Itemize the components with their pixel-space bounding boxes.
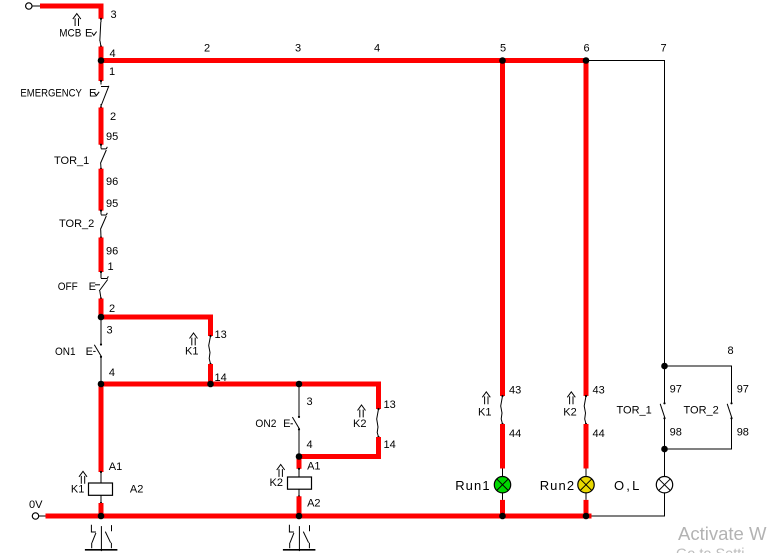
wire TOR_2 branch top	[665, 366, 732, 403]
svg-text:ON2: ON2	[255, 418, 276, 430]
svg-text:0V: 0V	[29, 499, 43, 511]
svg-text:MCB: MCB	[59, 27, 81, 39]
junction K1-14	[207, 381, 214, 388]
svg-text:2: 2	[204, 42, 210, 54]
svg-text:44: 44	[593, 428, 605, 440]
junction TOR bottom	[661, 446, 668, 453]
indicator lamp Run1 (green)	[494, 477, 510, 493]
svg-text:4: 4	[374, 42, 380, 54]
wire 96/1	[99, 238, 104, 273]
svg-text:TOR_1: TOR_1	[54, 155, 89, 167]
wire node 5	[500, 61, 505, 397]
svg-text:3: 3	[107, 325, 113, 337]
junction Run2 / 0V	[583, 513, 590, 520]
svg-text:A2: A2	[307, 497, 320, 509]
wire K2 44 to lamp	[584, 424, 589, 469]
linkage marker MCB	[73, 14, 81, 26]
wire lamp Run1 top lead	[502, 469, 504, 477]
wire Run2 to 0V	[584, 500, 589, 516]
svg-text:A1: A1	[307, 461, 320, 473]
emergency stop EMERGENCY (NC)	[20, 80, 109, 109]
overload contact TOR_2 (NC)	[59, 210, 107, 239]
indicator lamp Run2 (yellow)	[578, 477, 594, 493]
linkage marker K2 contact	[358, 405, 366, 417]
linkage marker K1 aux	[482, 392, 490, 404]
svg-text:A2: A2	[130, 484, 143, 496]
svg-text:Go to Setti: Go to Setti	[676, 547, 745, 553]
wire TOR to lamp O,L	[664, 449, 666, 477]
wire lamp Run1 bottom lead	[502, 493, 504, 500]
svg-text:2: 2	[109, 303, 115, 315]
contactor K1 linked-contacts glyph	[85, 525, 118, 551]
junction node 6	[583, 57, 590, 64]
wire node 4	[99, 47, 104, 82]
pushbutton ON2 (NO)	[255, 384, 300, 457]
svg-text:K2: K2	[353, 418, 366, 430]
svg-text:Activate W: Activate W	[678, 523, 767, 544]
wire lamp Run2 bottom lead	[585, 493, 587, 500]
wire K2 A2 to 0V	[297, 496, 302, 516]
svg-text:95: 95	[106, 198, 118, 210]
svg-text:E: E	[283, 418, 290, 430]
wire K2 coil feed	[297, 457, 302, 469]
svg-text:Run1: Run1	[455, 478, 490, 493]
linkage marker K1 coil	[79, 471, 87, 483]
linkage marker K2 coil	[277, 465, 285, 477]
svg-text:K1: K1	[478, 407, 491, 419]
svg-text:TOR_2: TOR_2	[59, 218, 94, 230]
svg-text:44: 44	[509, 428, 521, 440]
svg-text:K1: K1	[185, 346, 198, 358]
svg-text:95: 95	[106, 131, 118, 143]
junction node 5	[499, 57, 506, 64]
svg-text:13: 13	[215, 329, 227, 341]
svg-text:97: 97	[670, 384, 682, 396]
wire	[32, 5, 40, 7]
svg-text:98: 98	[737, 427, 749, 439]
svg-text:TOR_2: TOR_2	[684, 405, 719, 417]
wire K1 14	[208, 364, 213, 384]
svg-text:O,L: O,L	[614, 478, 642, 493]
breaker MCB	[59, 14, 102, 48]
wire K2 14 to ON2 bottom	[299, 437, 379, 457]
junction node 4	[98, 57, 105, 64]
svg-text:K2: K2	[563, 407, 576, 419]
indicator lamp O,L (white)	[656, 477, 672, 493]
svg-text:13: 13	[384, 399, 396, 411]
contact K2 43-44 (NO, closed)	[563, 392, 587, 425]
terminal 0V	[32, 513, 38, 519]
wire K1 44 to lamp	[500, 424, 505, 469]
svg-text:OFF: OFF	[58, 281, 78, 293]
wire K1 A2 to 0V	[99, 503, 104, 516]
svg-text:ON1: ON1	[55, 346, 76, 358]
wire lamp Run2 top lead	[585, 469, 587, 477]
junction Run1 / 0V	[499, 513, 506, 520]
junction TOR top	[661, 363, 668, 370]
contact K1 43-44 (NO, closed)	[478, 392, 504, 425]
svg-text:Run2: Run2	[540, 478, 575, 493]
svg-text:96: 96	[106, 246, 118, 258]
wire	[39, 515, 46, 517]
junction K1-A2 / 0V	[98, 513, 105, 520]
svg-text:43: 43	[509, 385, 521, 397]
svg-text:E: E	[89, 281, 96, 293]
svg-text:TOR_1: TOR_1	[617, 405, 652, 417]
terminal L1 (supply)	[26, 3, 32, 9]
wire ON1/K1 top branch	[101, 317, 211, 336]
svg-text:E: E	[85, 27, 92, 39]
junction ON1 top	[98, 314, 105, 321]
svg-text:E: E	[86, 346, 93, 358]
svg-text:96: 96	[106, 176, 118, 188]
overload contact TOR_1 (NC)	[54, 144, 107, 170]
pushbutton OFF (NC)	[58, 271, 109, 300]
wire 0V rail	[46, 514, 592, 519]
wire node 2/95	[99, 108, 104, 145]
svg-text:43: 43	[593, 385, 605, 397]
wire node 6	[584, 61, 589, 397]
wire Run1 to 0V	[500, 500, 505, 516]
svg-text:3: 3	[295, 42, 301, 54]
junction ON2 top	[296, 381, 303, 388]
svg-text:4: 4	[109, 367, 115, 379]
linkage marker K1 contact	[190, 333, 198, 345]
svg-text:K2: K2	[270, 477, 283, 489]
wire node 4 row to K2 branch	[101, 384, 379, 409]
svg-text:3: 3	[307, 396, 313, 408]
wire L1 feed	[40, 6, 101, 19]
coil K1 (A1-A2)	[71, 457, 299, 505]
wire node 7 (off)	[586, 61, 665, 367]
wire lamp O,L to 0V	[592, 493, 665, 516]
svg-text:1: 1	[108, 261, 114, 273]
svg-text:5: 5	[500, 42, 506, 54]
overload contact TOR_2 97-98 (NO)	[665, 402, 733, 449]
svg-text:A1: A1	[109, 461, 122, 473]
contactor K2 linked-contacts glyph	[283, 525, 316, 551]
wire 96/95	[99, 169, 104, 211]
svg-text:8: 8	[728, 345, 734, 357]
contact K1 13-14 (NO, closed)	[185, 333, 212, 365]
linkage marker K2 aux	[567, 392, 575, 404]
contact K2 13-14 (NO, closed)	[353, 405, 380, 438]
svg-text:EMERGENCY: EMERGENCY	[20, 87, 82, 99]
overload contact TOR_1 97-98 (NO)	[617, 366, 666, 449]
junction K2-A2 / 0V	[296, 513, 303, 520]
junction ON2 bottom / A1 node	[296, 453, 303, 460]
svg-text:2: 2	[110, 111, 116, 123]
svg-text:K1: K1	[71, 484, 84, 496]
svg-text:14: 14	[384, 439, 396, 451]
svg-text:4: 4	[307, 439, 313, 451]
svg-text:7: 7	[661, 42, 667, 54]
svg-text:1: 1	[109, 66, 115, 78]
svg-text:98: 98	[670, 427, 682, 439]
svg-text:3: 3	[111, 9, 117, 21]
pushbutton ON1 (NO)	[55, 317, 102, 384]
wire top rail (node 4)	[101, 58, 586, 63]
svg-text:6: 6	[584, 42, 590, 54]
svg-text:97: 97	[737, 384, 749, 396]
wire node 2	[99, 299, 104, 318]
coil K2 (A1-A2)	[270, 461, 321, 510]
wire to K1 coil A1	[99, 384, 104, 472]
junction ON1 bottom	[98, 381, 105, 388]
